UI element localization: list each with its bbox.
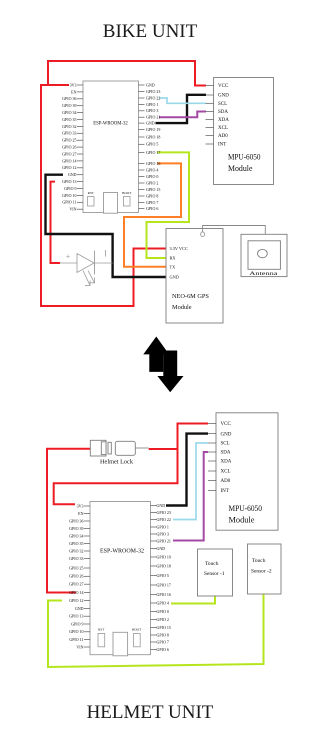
U4 pin GPIO 26 (left) xyxy=(69,574,90,579)
module U3 NEO-6M GPS xyxy=(166,229,223,324)
U1 pin GPIO 34 (left) xyxy=(62,110,83,115)
svg-text:GND: GND xyxy=(157,546,166,551)
svg-text:MPU-6050: MPU-6050 xyxy=(228,153,261,162)
svg-text:GPIO 2: GPIO 2 xyxy=(146,180,158,185)
svg-text:GPIO 15: GPIO 15 xyxy=(146,187,160,192)
svg-text:VIN: VIN xyxy=(76,644,83,649)
svg-text:GPIO 26: GPIO 26 xyxy=(69,574,83,579)
U4 pin GND (left) xyxy=(75,606,90,611)
svg-text:XDA: XDA xyxy=(218,118,229,123)
svg-text:GPIO 11: GPIO 11 xyxy=(69,637,83,642)
svg-text:GPIO 36: GPIO 36 xyxy=(69,518,83,523)
svg-text:AD0: AD0 xyxy=(218,134,228,139)
svg-text:GPIO 25: GPIO 25 xyxy=(69,565,83,570)
U2 pin XCL xyxy=(206,126,229,131)
U1 pin GND (right) xyxy=(139,82,155,87)
svg-text:GPIO 18: GPIO 18 xyxy=(146,134,160,139)
U1 pin GPIO 39 (left) xyxy=(62,103,83,108)
U4 pin GND (right) xyxy=(151,503,166,508)
U4 USB connector xyxy=(113,632,128,656)
svg-text:GPIO 4: GPIO 4 xyxy=(157,600,169,605)
U5 pin INT xyxy=(208,489,229,494)
U1 pin GPIO 10 (left) xyxy=(62,193,83,198)
touch sensor TS1 xyxy=(198,549,233,596)
U5 pin AD0 xyxy=(208,479,231,484)
svg-text:GPIO 16: GPIO 16 xyxy=(146,161,160,166)
U1 pin GPIO 21 (right) xyxy=(139,115,161,120)
U2 pin INT xyxy=(206,143,227,148)
U4 pin GPIO 7 (right) xyxy=(151,639,169,644)
svg-text:GPIO 34: GPIO 34 xyxy=(62,110,76,115)
svg-text:GPIO 35: GPIO 35 xyxy=(69,541,83,546)
svg-text:GPIO 14: GPIO 14 xyxy=(69,590,83,595)
svg-text:BOOT: BOOT xyxy=(122,191,132,195)
wire red 3V3 branch to GPS 3.3V VCC xyxy=(41,85,166,306)
svg-text:GPIO 14: GPIO 14 xyxy=(62,158,76,163)
svg-text:RST: RST xyxy=(98,628,105,632)
svg-text:GPIO 9: GPIO 9 xyxy=(71,621,83,626)
U1 pin GPIO 0 (right) xyxy=(139,174,159,179)
LED D1 xyxy=(60,250,113,275)
U2 pin XDA xyxy=(206,118,230,123)
svg-text:GPIO 23: GPIO 23 xyxy=(146,89,160,94)
svg-text:GND: GND xyxy=(146,121,155,126)
svg-text:GPIO 12: GPIO 12 xyxy=(62,165,76,170)
wire red MPU VCC to helmet lock and 3V3 xyxy=(54,424,208,505)
svg-text:GPIO 13: GPIO 13 xyxy=(69,614,83,619)
svg-text:Touch: Touch xyxy=(252,558,266,564)
U4 pin GPIO 14 (left) xyxy=(69,590,90,595)
svg-text:VCC: VCC xyxy=(218,84,229,89)
U1 pin GPIO 9 (left) xyxy=(64,186,83,191)
svg-text:GPIO 33: GPIO 33 xyxy=(62,131,76,136)
antenna ANT1 xyxy=(241,234,287,277)
svg-text:GPIO 4: GPIO 4 xyxy=(146,167,158,172)
wire black right GND to MPU-6050 GND xyxy=(156,95,207,123)
svg-text:GPIO 8: GPIO 8 xyxy=(146,193,158,198)
svg-text:GPIO 8: GPIO 8 xyxy=(157,632,169,637)
svg-text:GPIO 27: GPIO 27 xyxy=(62,151,76,156)
svg-text:GPIO 27: GPIO 27 xyxy=(69,582,83,587)
wire orange GPIO 16 to GPS TX xyxy=(124,163,181,266)
module U1 ESP-WROOM-32 (bike) xyxy=(83,81,139,213)
svg-text:Module: Module xyxy=(229,516,255,525)
U1 RST button xyxy=(88,191,95,206)
U3 antenna connector xyxy=(201,229,205,237)
svg-text:TX: TX xyxy=(170,264,177,269)
data transfer down arrow xyxy=(157,351,183,393)
svg-text:VCC: VCC xyxy=(221,422,232,427)
U1 pin GPIO 35 (left) xyxy=(62,117,83,122)
U5 pin SDA xyxy=(208,451,231,456)
svg-text:GPIO 7: GPIO 7 xyxy=(146,200,158,205)
svg-text:GPIO 25: GPIO 25 xyxy=(62,138,76,143)
svg-text:EN: EN xyxy=(78,511,83,516)
svg-text:GPIO 23: GPIO 23 xyxy=(157,510,171,515)
svg-text:GPIO 5: GPIO 5 xyxy=(146,142,158,147)
U4 pin EN (left) xyxy=(78,511,90,516)
svg-text:GPIO 11: GPIO 11 xyxy=(62,200,76,205)
svg-text:ESP-WROOM-32: ESP-WROOM-32 xyxy=(100,549,144,555)
wire cyan GPIO 22 to MPU-6050 SCL xyxy=(159,98,206,103)
U4 pin GPIO 8 (right) xyxy=(151,632,169,637)
svg-text:GPIO 26: GPIO 26 xyxy=(62,145,76,150)
svg-text:XDA: XDA xyxy=(221,460,232,465)
svg-text:GND: GND xyxy=(221,432,232,437)
svg-text:GPIO 2: GPIO 2 xyxy=(157,617,169,622)
svg-text:EN: EN xyxy=(71,89,76,94)
U4 pin GPIO 3 (right) xyxy=(151,531,169,536)
wire red 3V3 to MPU-6050 VCC xyxy=(48,61,206,86)
U4 RST button xyxy=(98,628,105,647)
wire green GPIO 12 to touch sensor 2 xyxy=(48,594,264,667)
svg-text:3V3: 3V3 xyxy=(70,82,77,87)
svg-text:RX: RX xyxy=(170,256,177,261)
svg-text:GPIO 6: GPIO 6 xyxy=(146,206,158,211)
svg-text:RST: RST xyxy=(88,191,95,195)
U4 pin GPIO 1 (right) xyxy=(151,524,169,529)
svg-text:GPIO 12: GPIO 12 xyxy=(69,598,83,603)
U4 pin GPIO 16 (right) xyxy=(151,592,171,597)
U2 pin VCC xyxy=(206,84,229,89)
svg-text:GPIO 21: GPIO 21 xyxy=(146,115,160,120)
U1 pin GPIO 19 (right) xyxy=(139,127,161,132)
module U5 MPU-6050 (helmet) xyxy=(216,413,278,530)
U4 pin GPIO 22 (right) xyxy=(151,517,171,522)
svg-text:GPIO 32: GPIO 32 xyxy=(69,548,83,553)
svg-text:3V3: 3V3 xyxy=(77,503,84,508)
U4 pin GPIO 10 (left) xyxy=(69,629,90,634)
wire gray GPS antenna to Antenna box xyxy=(203,226,266,235)
module U2 MPU-6050 (bike) xyxy=(214,78,274,185)
svg-text:SCL: SCL xyxy=(218,102,227,107)
svg-text:GND: GND xyxy=(170,274,179,279)
svg-text:GPIO 34: GPIO 34 xyxy=(69,533,83,538)
U1 pin GPIO 25 (left) xyxy=(62,138,83,143)
svg-text:GND: GND xyxy=(157,503,166,508)
svg-text:Sensor -2: Sensor -2 xyxy=(251,569,272,575)
U1 USB connector xyxy=(104,193,118,214)
U1 pin GPIO 4 (right) xyxy=(139,167,159,172)
U4 BOOT button xyxy=(132,628,142,647)
U1 pin GPIO 32 (left) xyxy=(62,124,83,129)
U1 pin GND (left) xyxy=(68,172,83,177)
svg-text:ESP-WROOM-32: ESP-WROOM-32 xyxy=(93,122,128,127)
svg-text:GPIO 16: GPIO 16 xyxy=(157,592,171,597)
module U4 ESP-WROOM-32 (helmet) xyxy=(90,502,151,655)
svg-text:GPIO 3: GPIO 3 xyxy=(146,108,158,113)
svg-text:SCL: SCL xyxy=(221,442,230,447)
U4 pin GPIO 17 (right) xyxy=(151,582,171,587)
U5 pin SCL xyxy=(208,442,230,447)
U1 pin GPIO 2 (right) xyxy=(139,180,159,185)
U1 pin GPIO 5 (right) xyxy=(139,142,159,147)
wire purple GPIO 21 to MPU-6050 SDA xyxy=(159,112,206,118)
svg-text:AD0: AD0 xyxy=(221,479,231,484)
svg-text:Touch: Touch xyxy=(205,561,219,567)
svg-text:SDA: SDA xyxy=(218,110,228,115)
U1 pin GPIO 6 (right) xyxy=(139,206,159,211)
U2 pin SDA xyxy=(206,110,229,115)
svg-text:+: + xyxy=(66,252,70,261)
U1 pin GND (right) xyxy=(139,121,155,126)
svg-text:GPIO 9: GPIO 9 xyxy=(64,186,76,191)
U1 pin GPIO 15 (right) xyxy=(139,187,161,192)
wire purple MPU SDA to GPIO 21 xyxy=(173,452,208,541)
U1 pin GPIO 13 (left) xyxy=(62,179,83,184)
svg-text:GPIO 36: GPIO 36 xyxy=(62,96,76,101)
svg-text:GPIO 1: GPIO 1 xyxy=(146,102,158,107)
wire red helmet lock left terminal to GPIO 14 xyxy=(47,449,90,593)
svg-text:3.3V VCC: 3.3V VCC xyxy=(170,246,188,251)
U2 pin GND xyxy=(206,94,230,99)
svg-text:GPIO 10: GPIO 10 xyxy=(69,629,83,634)
U4 pin GPIO 19 (right) xyxy=(151,554,171,559)
U4 pin GPIO 32 (left) xyxy=(69,548,90,553)
svg-text:BIKE UNIT: BIKE UNIT xyxy=(103,21,198,42)
wire black MPU GND to ESP GND xyxy=(166,434,208,506)
U1 pin GPIO 27 (left) xyxy=(62,151,83,156)
svg-text:GPIO 7: GPIO 7 xyxy=(157,639,169,644)
svg-text:GPIO 33: GPIO 33 xyxy=(69,556,83,561)
U1 pin GPIO 8 (right) xyxy=(139,193,159,198)
svg-text:GPIO 18: GPIO 18 xyxy=(157,563,171,568)
U4 pin GPIO 35 (left) xyxy=(69,541,90,546)
wire yellow-green GPIO 17 to GPS RX xyxy=(147,152,190,258)
U4 pin GPIO 34 (left) xyxy=(69,533,90,538)
touch sensor TS2 xyxy=(248,544,282,594)
svg-text:Antenna: Antenna xyxy=(249,271,278,277)
U4 pin GPIO 11 (left) xyxy=(69,637,90,642)
svg-text:GPIO 17: GPIO 17 xyxy=(157,582,171,587)
svg-text:GPIO 22: GPIO 22 xyxy=(146,95,160,100)
U1 pin GPIO 23 (right) xyxy=(139,89,161,94)
svg-text:GPIO 3: GPIO 3 xyxy=(157,531,169,536)
svg-text:GPIO 15: GPIO 15 xyxy=(157,625,171,630)
wire red GPIO 13 to LED anode xyxy=(51,182,61,263)
U1 pin GPIO 36 (left) xyxy=(62,96,83,101)
svg-text:GPIO 39: GPIO 39 xyxy=(69,526,83,531)
svg-text:GPIO 5: GPIO 5 xyxy=(157,573,169,578)
U5 pin XDA xyxy=(208,460,232,465)
svg-text:GND: GND xyxy=(68,172,77,177)
svg-text:GND: GND xyxy=(146,82,155,87)
data transfer up arrow xyxy=(143,337,169,372)
wire green touch sensor 1 to GPIO 4 xyxy=(171,596,215,604)
U4 pin GPIO 4 (right) xyxy=(151,600,169,605)
U4 pin GPIO 33 (left) xyxy=(69,556,90,561)
svg-text:INT: INT xyxy=(221,489,229,494)
U1 pin GPIO 11 (left) xyxy=(62,200,83,205)
U4 pin GPIO 21 (right) xyxy=(151,538,171,543)
U1 pin GPIO 22 (right) xyxy=(139,95,161,100)
svg-text:XCL: XCL xyxy=(221,470,231,475)
svg-text:GPIO 35: GPIO 35 xyxy=(62,117,76,122)
U5 pin GND xyxy=(208,432,232,437)
svg-text:GND: GND xyxy=(218,94,229,99)
U1 pin GPIO 16 (right) xyxy=(139,161,161,166)
LED D1 light arrows xyxy=(83,271,95,286)
U1 BOOT button xyxy=(122,191,132,206)
U1 pin GPIO 33 (left) xyxy=(62,131,83,136)
U1 pin EN (left) xyxy=(71,89,83,94)
U4 pin GPIO 12 (left) xyxy=(69,598,90,603)
svg-text:Sensor -1: Sensor -1 xyxy=(204,571,225,577)
svg-text:GPIO 0: GPIO 0 xyxy=(146,174,158,179)
U1 pin GPIO 7 (right) xyxy=(139,200,159,205)
U5 pin VCC xyxy=(208,422,231,427)
svg-text:INT: INT xyxy=(218,143,226,148)
U4 pin 3V3 (left) xyxy=(77,503,90,508)
svg-text:GPIO 0: GPIO 0 xyxy=(157,609,169,614)
svg-text:BOOT: BOOT xyxy=(132,628,142,632)
U4 pin GPIO 18 (right) xyxy=(151,563,171,568)
svg-text:GPIO 19: GPIO 19 xyxy=(157,554,171,559)
U4 pin GPIO 5 (right) xyxy=(151,573,169,578)
svg-text:GND: GND xyxy=(75,606,84,611)
U5 pin XCL xyxy=(208,470,231,475)
svg-text:GPIO 19: GPIO 19 xyxy=(146,127,160,132)
U1 pin 3V3 (left) xyxy=(70,82,83,87)
U4 pin GPIO 15 (right) xyxy=(151,625,171,630)
U4 pin GPIO 23 (right) xyxy=(151,510,171,515)
helmet lock LK1 xyxy=(90,440,148,465)
U4 pin GPIO 6 (right) xyxy=(151,647,169,652)
svg-text:NEO-6M GPS: NEO-6M GPS xyxy=(172,293,209,300)
U4 pin GPIO 0 (right) xyxy=(151,609,169,614)
svg-text:GPIO 32: GPIO 32 xyxy=(62,124,76,129)
svg-text:GPIO 10: GPIO 10 xyxy=(62,193,76,198)
svg-text:GPIO 21: GPIO 21 xyxy=(157,538,171,543)
U1 pin GPIO 1 (right) xyxy=(139,102,159,107)
svg-text:Module: Module xyxy=(228,164,253,173)
U1 pin GPIO 12 (left) xyxy=(62,165,83,170)
U4 pin GND (right) xyxy=(151,546,166,551)
svg-text:Module: Module xyxy=(172,304,192,311)
U4 pin GPIO 25 (left) xyxy=(69,565,90,570)
svg-text:SDA: SDA xyxy=(221,451,231,456)
svg-text:GPIO 17: GPIO 17 xyxy=(146,150,160,155)
wire cyan MPU SCL to GPIO 22 xyxy=(173,443,208,520)
U4 pin VIN (left) xyxy=(76,644,90,649)
svg-text:VIN: VIN xyxy=(69,207,76,212)
wire black GND to GPS GND with LED cathode junction xyxy=(46,175,167,277)
U2 pin SCL xyxy=(206,102,228,107)
svg-text:MPU-6050: MPU-6050 xyxy=(229,504,263,513)
svg-text:GPIO 22: GPIO 22 xyxy=(157,517,171,522)
svg-text:GPIO 1: GPIO 1 xyxy=(157,524,169,529)
U4 pin GPIO 2 (right) xyxy=(151,617,169,622)
svg-text:GPIO 6: GPIO 6 xyxy=(157,647,169,652)
U4 pin GPIO 13 (left) xyxy=(69,614,90,619)
U1 pin GPIO 26 (left) xyxy=(62,145,83,150)
svg-text:XCL: XCL xyxy=(218,126,228,131)
U1 pin GPIO 17 (right) xyxy=(139,150,161,155)
U1 pin GPIO 3 (right) xyxy=(139,108,159,113)
wire red branch to helmet lock right terminal xyxy=(149,448,178,450)
svg-text:GPIO 13: GPIO 13 xyxy=(62,179,76,184)
U1 pin VIN (left) xyxy=(69,207,83,212)
U2 pin AD0 xyxy=(206,134,229,139)
svg-text:GPIO 39: GPIO 39 xyxy=(62,103,76,108)
U1 pin GPIO 18 (right) xyxy=(139,134,161,139)
U4 pin GPIO 39 (left) xyxy=(69,526,90,531)
U1 pin GPIO 14 (left) xyxy=(62,158,83,163)
svg-text:Helmet Lock: Helmet Lock xyxy=(100,459,134,466)
U4 pin GPIO 36 (left) xyxy=(69,518,90,523)
U4 pin GPIO 27 (left) xyxy=(69,582,90,587)
svg-text:HELMET UNIT: HELMET UNIT xyxy=(87,702,214,723)
U4 pin GPIO 9 (left) xyxy=(71,621,90,626)
